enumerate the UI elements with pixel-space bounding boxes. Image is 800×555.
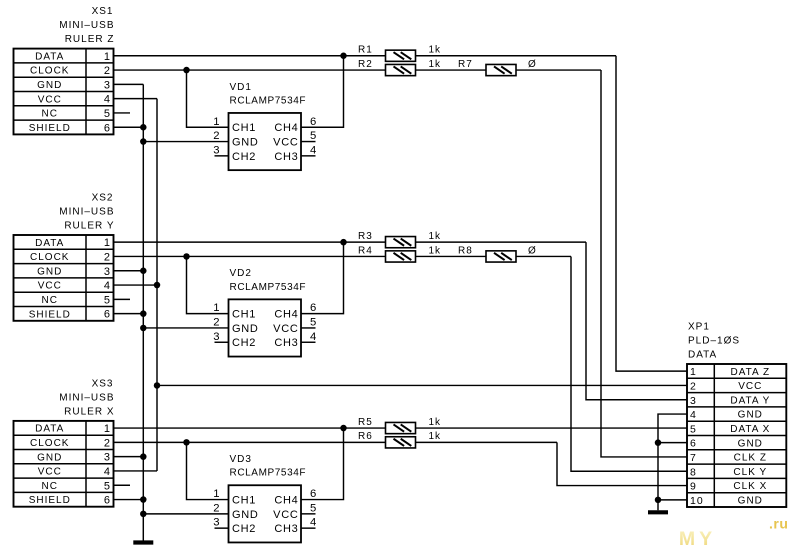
svg-text:Ø: Ø bbox=[528, 245, 537, 256]
svg-text:DATA: DATA bbox=[35, 51, 64, 62]
XS2 NC pin5 stub bbox=[114, 298, 131, 300]
svg-text:MINI–USB: MINI–USB bbox=[59, 392, 114, 403]
svg-text:CLOCK: CLOCK bbox=[30, 438, 69, 449]
svg-text:6: 6 bbox=[104, 122, 111, 134]
svg-text:9: 9 bbox=[690, 481, 697, 493]
svg-text:1: 1 bbox=[104, 237, 111, 249]
svg-text:1: 1 bbox=[213, 116, 220, 128]
junction VD1 GND / GND bus bbox=[140, 138, 147, 145]
VD3 pin 4 stub bbox=[301, 527, 316, 529]
svg-text:VCC: VCC bbox=[738, 381, 762, 392]
svg-text:GND: GND bbox=[37, 452, 62, 463]
svg-text:6: 6 bbox=[104, 309, 111, 321]
label XS3 title bbox=[59, 378, 114, 417]
svg-text:3: 3 bbox=[213, 144, 220, 156]
VD3 pin numbers bbox=[213, 488, 317, 529]
svg-text:CH4: CH4 bbox=[274, 309, 298, 321]
wire XS2 GND pin3 to GND bus bbox=[114, 270, 144, 272]
junction VD2 GND / GND bus bbox=[140, 325, 147, 332]
svg-text:VD1: VD1 bbox=[230, 82, 252, 93]
svg-text:4: 4 bbox=[104, 280, 111, 292]
svg-text:DATA Y: DATA Y bbox=[730, 395, 770, 406]
wire XS3 GND pin3 to GND bus bbox=[114, 456, 144, 458]
ground symbol right bbox=[648, 510, 668, 514]
wire DATA Z: XS1 pin1 through R1 to XP1 pin1 bbox=[114, 56, 688, 371]
svg-text:4: 4 bbox=[310, 144, 317, 156]
svg-text:2: 2 bbox=[213, 130, 220, 142]
svg-text:R1: R1 bbox=[358, 45, 373, 56]
svg-text:1: 1 bbox=[104, 51, 111, 63]
svg-text:GND: GND bbox=[738, 410, 763, 421]
svg-text:6: 6 bbox=[104, 495, 111, 507]
svg-text:SHIELD: SHIELD bbox=[29, 495, 71, 506]
svg-text:R8: R8 bbox=[458, 245, 473, 256]
resistor R3 body bbox=[386, 237, 416, 248]
connector XP1 PLD-10S bbox=[687, 364, 786, 507]
ground symbol left bbox=[133, 540, 153, 544]
svg-text:5: 5 bbox=[690, 423, 697, 435]
svg-text:R3: R3 bbox=[358, 231, 373, 242]
wire VD3 CH4 branch to DATA X bbox=[301, 428, 344, 500]
junction VD3 GND / GND bus bbox=[140, 511, 147, 518]
svg-text:NC: NC bbox=[42, 295, 58, 306]
svg-text:2: 2 bbox=[104, 65, 111, 77]
svg-text:RULER Y: RULER Y bbox=[64, 220, 114, 231]
svg-text:DATA X: DATA X bbox=[730, 424, 770, 435]
label XS1 title bbox=[59, 6, 114, 45]
svg-text:3: 3 bbox=[104, 79, 111, 91]
VD2 pin 5 stub bbox=[301, 327, 316, 329]
junction XS2 VCC / VCC bus bbox=[154, 282, 161, 289]
svg-text:1: 1 bbox=[104, 423, 111, 435]
svg-text:CH2: CH2 bbox=[232, 337, 256, 349]
label VD1 title bbox=[230, 82, 307, 107]
wire XP1 GND bus pins 4,6,10 to ground bbox=[658, 414, 687, 510]
svg-text:CH1: CH1 bbox=[232, 494, 256, 506]
svg-text:VCC: VCC bbox=[273, 136, 298, 148]
svg-text:GND: GND bbox=[232, 136, 259, 148]
resistor R4 body bbox=[386, 251, 416, 262]
svg-text:2: 2 bbox=[104, 251, 111, 263]
XS1 NC pin5 stub bbox=[114, 112, 131, 114]
wire CLK X: XS3 pin2 through R6 to XP1 pin9 bbox=[114, 442, 688, 485]
svg-text:VCC: VCC bbox=[38, 281, 62, 292]
svg-text:3: 3 bbox=[213, 517, 220, 529]
VD1 pin 5 stub bbox=[301, 141, 316, 143]
VD1 pin 4 stub bbox=[301, 155, 316, 157]
svg-text:CH2: CH2 bbox=[232, 151, 256, 163]
svg-text:1k: 1k bbox=[429, 231, 442, 242]
wire DATA X: XS3 pin1 through R5 to XP1 pin5 bbox=[114, 427, 688, 429]
wire VD1 GND pin2 to GND bus bbox=[143, 141, 228, 143]
svg-text:10: 10 bbox=[690, 495, 704, 507]
svg-text:SHIELD: SHIELD bbox=[29, 309, 71, 320]
junction CLK X / VD3 CH1 bbox=[183, 439, 190, 446]
svg-text:R6: R6 bbox=[358, 431, 373, 442]
svg-text:XP1: XP1 bbox=[688, 321, 710, 332]
resistor R7 body bbox=[486, 64, 516, 75]
svg-text:3: 3 bbox=[104, 452, 111, 464]
svg-text:1k: 1k bbox=[429, 59, 442, 70]
resistor R5 body bbox=[386, 422, 416, 433]
svg-text:4: 4 bbox=[310, 517, 317, 529]
svg-text:CH3: CH3 bbox=[274, 337, 298, 349]
wire DATA Y: XS2 pin1 through R3 to XP1 pin3 bbox=[114, 242, 688, 400]
svg-text:DATA Z: DATA Z bbox=[731, 367, 771, 378]
svg-text:6: 6 bbox=[310, 302, 317, 314]
label XS2 title bbox=[59, 192, 114, 231]
svg-text:XS2: XS2 bbox=[92, 192, 114, 203]
junction CLK Z / VD1 CH1 bbox=[183, 67, 190, 74]
svg-text:RULER Z: RULER Z bbox=[65, 34, 115, 45]
svg-text:5: 5 bbox=[104, 480, 111, 492]
VD1 pin 3 stub bbox=[215, 155, 229, 157]
svg-text:1k: 1k bbox=[429, 245, 442, 256]
svg-text:5: 5 bbox=[310, 502, 317, 514]
wire VD1 CH4 branch to DATA Z bbox=[301, 56, 344, 128]
svg-text:VD3: VD3 bbox=[230, 454, 252, 465]
wire VCC bus from XS1 pin4 down to XS3 pin4 bbox=[114, 99, 158, 471]
wire VCC bus to XP1 pin2 bbox=[157, 384, 687, 386]
wire CLK Z: XS1 pin2 through R2 and R7 to XP1 pin7 bbox=[114, 70, 688, 457]
svg-text:DATA: DATA bbox=[35, 424, 64, 435]
svg-text:.ru: .ru bbox=[769, 516, 788, 532]
svg-text:SHIELD: SHIELD bbox=[29, 123, 71, 134]
svg-text:4: 4 bbox=[310, 331, 317, 343]
svg-text:RULER X: RULER X bbox=[64, 406, 114, 417]
svg-text:VD2: VD2 bbox=[230, 268, 252, 279]
junction XS2 GND / GND bus bbox=[140, 268, 147, 275]
svg-text:6: 6 bbox=[310, 488, 317, 500]
VD2 pin 4 stub bbox=[301, 341, 316, 343]
svg-text:CLOCK: CLOCK bbox=[30, 66, 69, 77]
svg-text:5: 5 bbox=[104, 294, 111, 306]
VD2 pin 3 stub bbox=[215, 341, 229, 343]
svg-text:GND: GND bbox=[37, 266, 62, 277]
svg-text:MINI–USB: MINI–USB bbox=[59, 206, 114, 217]
IC VD2 RCLAMP7534F bbox=[229, 299, 302, 356]
junction DATA X / VD3 CH4 bbox=[340, 425, 347, 432]
junction DATA Y / VD2 CH4 bbox=[340, 239, 347, 246]
svg-text:VCC: VCC bbox=[273, 323, 298, 335]
svg-text:6: 6 bbox=[310, 116, 317, 128]
svg-text:2: 2 bbox=[104, 437, 111, 449]
wire XS3 SHIELD to GND bus bbox=[114, 499, 144, 501]
svg-text:RCLAMP7534F: RCLAMP7534F bbox=[230, 282, 307, 293]
junction DATA Z / VD1 CH4 bbox=[340, 53, 347, 60]
svg-text:4: 4 bbox=[104, 466, 111, 478]
junction XS1 SHIELD / GND bus bbox=[140, 124, 147, 131]
IC VD1 RCLAMP7534F bbox=[229, 113, 302, 170]
wire XS1 SHIELD to GND bus bbox=[114, 126, 144, 128]
svg-text:R7: R7 bbox=[458, 59, 473, 70]
svg-text:PLD–1ØS: PLD–1ØS bbox=[688, 335, 740, 346]
svg-text:7: 7 bbox=[690, 452, 697, 464]
wire CLK Y: XS2 pin2 through R4 and R8 to XP1 pin8 bbox=[114, 256, 688, 471]
svg-text:GND: GND bbox=[232, 323, 259, 335]
svg-text:RCLAMP7534F: RCLAMP7534F bbox=[230, 95, 307, 106]
svg-text:MY: MY bbox=[679, 528, 716, 550]
wire VD2 GND pin2 to GND bus bbox=[143, 327, 228, 329]
svg-text:CLK X: CLK X bbox=[733, 481, 767, 492]
junction VCC bus / XP1 VCC wire bbox=[154, 382, 161, 389]
svg-text:XS1: XS1 bbox=[92, 6, 114, 17]
svg-text:5: 5 bbox=[310, 130, 317, 142]
svg-text:4: 4 bbox=[690, 409, 697, 421]
svg-text:1k: 1k bbox=[429, 431, 442, 442]
svg-text:2: 2 bbox=[690, 380, 697, 392]
svg-text:DATA: DATA bbox=[688, 349, 717, 360]
junction XS3 GND / GND bus bbox=[140, 453, 147, 460]
svg-text:GND: GND bbox=[738, 495, 763, 506]
svg-text:3: 3 bbox=[104, 266, 111, 278]
svg-text:CH1: CH1 bbox=[232, 309, 256, 321]
svg-text:R2: R2 bbox=[358, 59, 373, 70]
svg-text:R5: R5 bbox=[358, 417, 373, 428]
svg-text:Ø: Ø bbox=[528, 59, 537, 70]
svg-text:CH4: CH4 bbox=[274, 494, 298, 506]
svg-text:NC: NC bbox=[42, 481, 58, 492]
IC VD3 RCLAMP7534F bbox=[229, 485, 302, 542]
junction XS3 SHIELD / GND bus bbox=[140, 496, 147, 503]
connector XS3 MINI-USB bbox=[14, 421, 114, 507]
svg-text:5: 5 bbox=[104, 108, 111, 120]
svg-text:R4: R4 bbox=[358, 245, 373, 256]
svg-text:1: 1 bbox=[213, 302, 220, 314]
wire XS2 SHIELD to GND bus bbox=[114, 313, 144, 315]
svg-text:CH4: CH4 bbox=[274, 122, 298, 134]
label XP1 title bbox=[688, 321, 740, 360]
resistor R2 body bbox=[386, 64, 416, 75]
connector XS2 MINI-USB bbox=[14, 235, 114, 321]
connector XS1 MINI-USB bbox=[14, 49, 114, 135]
svg-text:VCC: VCC bbox=[273, 509, 298, 521]
VD2 pin numbers bbox=[213, 302, 317, 343]
junction XP1 pin6 / GND bus bbox=[655, 439, 662, 446]
svg-text:8: 8 bbox=[690, 466, 697, 478]
wire VD1 CH1 branch to CLK Z bbox=[187, 70, 229, 127]
svg-text:2: 2 bbox=[213, 502, 220, 514]
svg-text:XS3: XS3 bbox=[92, 378, 114, 389]
svg-text:VCC: VCC bbox=[38, 94, 62, 105]
svg-text:CLOCK: CLOCK bbox=[30, 252, 69, 263]
wire GND bus from XS1 pin3 down left side bbox=[114, 84, 144, 540]
wire VD3 CH1 branch to CLK X bbox=[187, 442, 229, 499]
svg-text:1: 1 bbox=[213, 488, 220, 500]
svg-text:MINI–USB: MINI–USB bbox=[59, 20, 114, 31]
resistor R8 body bbox=[486, 251, 516, 262]
svg-text:GND: GND bbox=[232, 509, 259, 521]
resistor R1 body bbox=[386, 50, 416, 61]
svg-text:CH2: CH2 bbox=[232, 523, 256, 535]
wire VD2 CH1 branch to CLK Y bbox=[187, 256, 229, 313]
svg-text:5: 5 bbox=[310, 316, 317, 328]
junction CLK Y / VD2 CH1 bbox=[183, 253, 190, 260]
svg-text:VCC: VCC bbox=[38, 467, 62, 478]
svg-text:6: 6 bbox=[690, 438, 697, 450]
svg-text:4: 4 bbox=[104, 94, 111, 106]
VD1 pin numbers bbox=[213, 116, 317, 157]
svg-text:GND: GND bbox=[738, 438, 763, 449]
svg-text:1k: 1k bbox=[429, 45, 442, 56]
svg-text:RCLAMP7534F: RCLAMP7534F bbox=[230, 468, 307, 479]
svg-text:CH3: CH3 bbox=[274, 523, 298, 535]
svg-text:GND: GND bbox=[37, 80, 62, 91]
junction XS2 SHIELD / GND bus bbox=[140, 310, 147, 317]
svg-text:3: 3 bbox=[213, 331, 220, 343]
label VD2 title bbox=[230, 268, 307, 293]
svg-text:CLK Y: CLK Y bbox=[733, 467, 767, 478]
svg-text:3: 3 bbox=[690, 395, 697, 407]
svg-text:1k: 1k bbox=[429, 417, 442, 428]
junction XP1 pin10 / GND bus bbox=[655, 497, 662, 504]
wire VD2 CH4 branch to DATA Y bbox=[301, 242, 344, 314]
label VD3 title bbox=[230, 454, 307, 479]
wire VD3 GND pin2 to GND bus bbox=[143, 513, 228, 515]
XS3 NC pin5 stub bbox=[114, 484, 131, 486]
svg-text:CH3: CH3 bbox=[274, 151, 298, 163]
VD3 pin 3 stub bbox=[215, 527, 229, 529]
svg-text:DATA: DATA bbox=[35, 238, 64, 249]
svg-text:NC: NC bbox=[42, 109, 58, 120]
VD3 pin 5 stub bbox=[301, 513, 316, 515]
resistor R6 body bbox=[386, 437, 416, 448]
svg-text:CLK Z: CLK Z bbox=[734, 453, 767, 464]
svg-text:CH1: CH1 bbox=[232, 122, 256, 134]
svg-text:2: 2 bbox=[213, 316, 220, 328]
svg-text:1: 1 bbox=[690, 366, 697, 378]
wire XS2 VCC to VCC bus bbox=[114, 284, 158, 286]
